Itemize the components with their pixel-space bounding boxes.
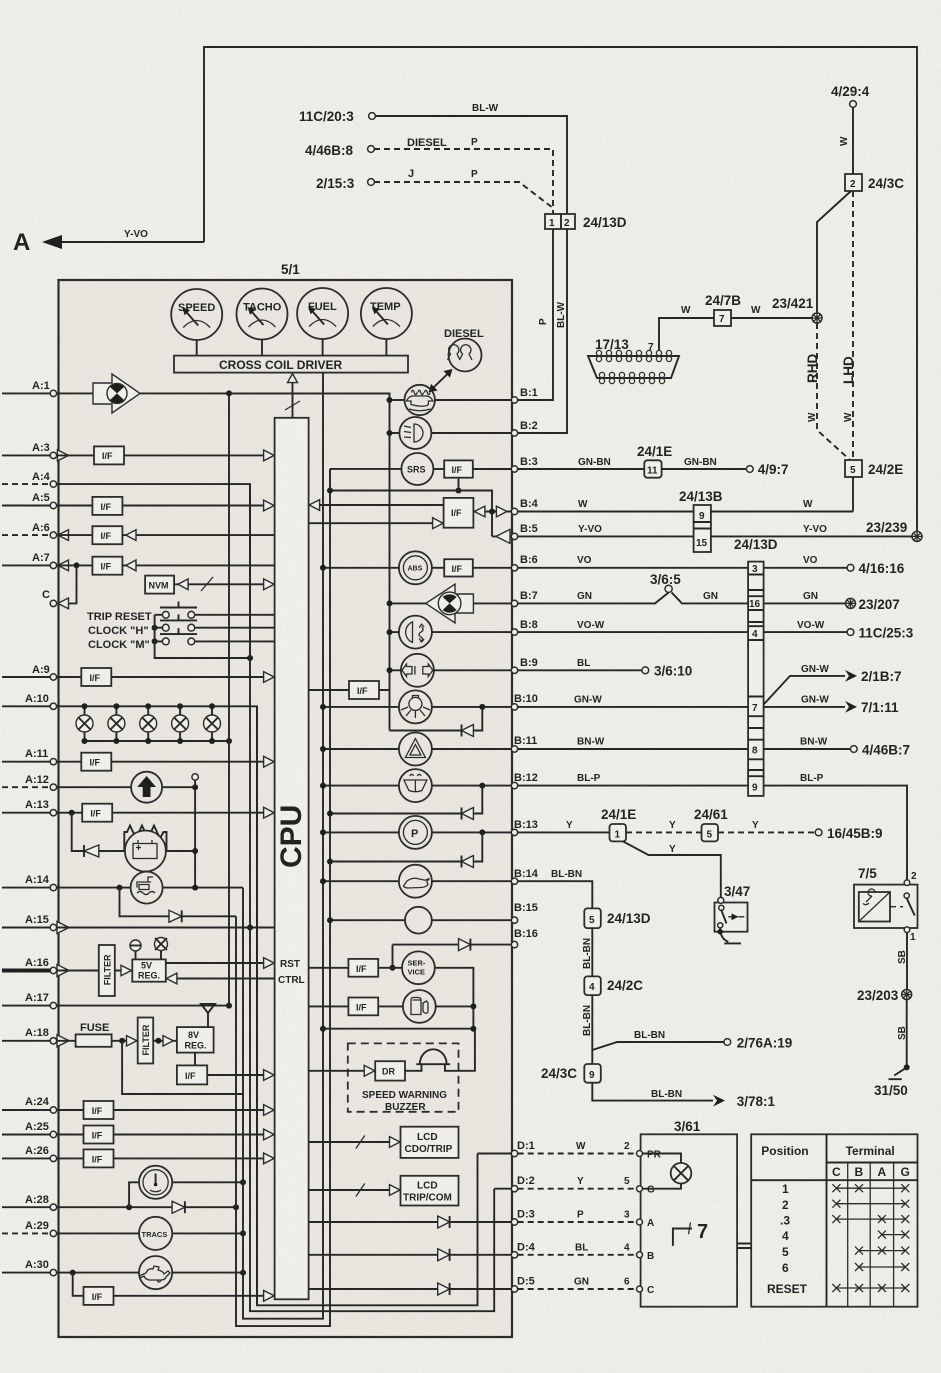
wire W from 24/7B to 23/421 bbox=[731, 305, 812, 318]
terminal 4/46B:7 bbox=[850, 743, 910, 758]
wire B:10 row bbox=[320, 704, 511, 710]
symbol stalk switch 3/61 bbox=[673, 1221, 708, 1246]
node junction A:28 bbox=[126, 1204, 132, 1210]
bus vertical x243 wrap bbox=[243, 373, 323, 1319]
pin A:1 bbox=[2, 380, 57, 397]
interface I/F A:25 bbox=[84, 1126, 114, 1144]
connector 24/3C pin 9 bbox=[541, 1064, 601, 1083]
wire filter to 5V reg bbox=[115, 965, 133, 975]
indicator low beam B:2 bbox=[399, 417, 431, 449]
interface I/F mid bus bbox=[349, 681, 379, 699]
node junction A:14 mid bbox=[192, 885, 198, 891]
pin B:9 bbox=[511, 657, 537, 674]
buzzer box dashed speed warning bbox=[348, 1043, 459, 1113]
wire A:9 row bbox=[57, 676, 275, 678]
interface I/F B:4 bbox=[444, 498, 474, 528]
wire B:13 diode branch bbox=[330, 832, 482, 861]
splice 23/239 bbox=[866, 520, 922, 542]
pin A:14 bbox=[2, 874, 57, 891]
diode D:3 bbox=[438, 1216, 450, 1228]
wire W from 4/29:4 to 24/3C bbox=[839, 107, 853, 174]
terminal 2/15:3 bbox=[316, 176, 374, 191]
arrow double-headed DIESEL to B:1 lamp bbox=[429, 369, 453, 393]
splice 23/207 bbox=[845, 597, 900, 612]
indicator fuel pump bbox=[403, 990, 436, 1023]
wire VO B:6 row bbox=[518, 555, 847, 568]
interface I/F A:13 bbox=[82, 804, 112, 822]
connector 24/2C pin 4 bbox=[584, 976, 643, 995]
symbol clock bbox=[139, 1166, 172, 1199]
wire A:18 branch down bbox=[122, 1041, 243, 1094]
wire D:3 internal bbox=[309, 1221, 512, 1223]
diode A:13 branch bbox=[84, 845, 99, 857]
wire A:26 row bbox=[57, 1157, 275, 1159]
symbol ignition arrow A:1 bbox=[93, 374, 140, 413]
diode B:12 branch bbox=[327, 808, 473, 820]
pin D:1 bbox=[511, 1140, 534, 1157]
node junction A:13 branch bbox=[69, 810, 75, 816]
diode A:28 bbox=[172, 1201, 185, 1213]
wire SB 7/5 to 23/203 bbox=[897, 933, 908, 991]
table row 2 contacts bbox=[832, 1200, 909, 1208]
wire Y branch to 3/47 bbox=[623, 841, 721, 897]
arrow into CPU A:26 bbox=[264, 1153, 275, 1164]
indicator parking brake B:13 bbox=[399, 816, 432, 849]
pin A:25 bbox=[2, 1121, 57, 1138]
wire SB 23/203 to ground bbox=[897, 1000, 908, 1068]
pin B:6 bbox=[511, 554, 537, 571]
wire GN D:5 to 3/61 bbox=[518, 1277, 636, 1290]
wire Y B:13 to 24/1E bbox=[518, 820, 610, 832]
wire B:8 row bbox=[387, 629, 512, 635]
wire BN-W B:11 row bbox=[518, 737, 851, 750]
terminal 3/6:10 bbox=[642, 664, 692, 679]
connector 24/13B pins 9 15 bbox=[679, 489, 723, 552]
wire B:2 row bbox=[387, 430, 512, 436]
wire A:13 row bbox=[57, 812, 275, 814]
gauge TACHO bbox=[237, 289, 288, 356]
switch CLOCK M bbox=[88, 628, 275, 651]
diode B:16 bbox=[459, 939, 471, 951]
wire A:1 row to bus bbox=[57, 392, 390, 394]
wire I/F A:18 to CPU bbox=[207, 1070, 274, 1081]
pin A:10 bbox=[2, 693, 57, 710]
wire 8V reg to I/F bbox=[194, 1053, 196, 1066]
arrow into CPU A:9 bbox=[264, 672, 275, 683]
pin A:3 bbox=[2, 442, 69, 461]
wire A:28 row bbox=[57, 1206, 236, 1208]
connector 24/13D pin 5 bbox=[584, 908, 650, 928]
antenna symbol 8V reg bbox=[201, 1004, 215, 1027]
indicator door ajar B:14 bbox=[399, 865, 432, 898]
pin D:5 bbox=[511, 1276, 534, 1293]
wire BL-P B:12 row bbox=[518, 773, 907, 883]
bus vertical x229 bbox=[228, 393, 230, 1005]
connector 24/3C pin 2 bbox=[845, 174, 904, 191]
connector 24/13D pins 1 2 bbox=[545, 214, 627, 230]
switch TRIP RESET bbox=[87, 602, 275, 624]
pin B:1 bbox=[511, 387, 537, 403]
wire P from 24/13D:1 down to B:1 bbox=[517, 229, 553, 400]
connector 24/2E pin 5 bbox=[845, 460, 903, 477]
pin A:6 bbox=[2, 522, 69, 541]
pin A:12 bbox=[2, 774, 57, 790]
wire D:5 internal bbox=[309, 1288, 512, 1290]
symbol lamp crossed bbox=[155, 938, 168, 960]
wire P J dashed from 2/15:3 joining 24/13D bbox=[374, 168, 553, 208]
wire Y dashed 24/61 to 16/45B:9 bbox=[718, 820, 815, 832]
wire W D:1 to 3/61 bbox=[518, 1141, 636, 1154]
wire A:7 row bbox=[57, 564, 275, 566]
gauge SPEED bbox=[171, 289, 222, 356]
wire fuse to filter bbox=[112, 1036, 138, 1046]
connector 24/1E pin 1 bbox=[601, 807, 636, 841]
wire GN B:7 row with 3/6:5 tap bbox=[518, 591, 846, 603]
wire B:13 row bbox=[320, 829, 511, 835]
indicator SERVICE bbox=[402, 951, 435, 984]
wire RST 5V reg to CPU bbox=[166, 958, 300, 970]
table row 1 contacts bbox=[832, 1184, 909, 1192]
pin A:7 bbox=[2, 552, 69, 571]
wire B:10 diode branch bbox=[390, 707, 483, 731]
wire A:11 row bbox=[57, 761, 275, 763]
pin A:16 bbox=[2, 957, 69, 977]
wire A:25 row bbox=[57, 1134, 275, 1136]
module 3/61 trip computer bbox=[637, 1119, 738, 1307]
buzzer dome symbol bbox=[405, 1029, 475, 1071]
wire A:30 row bbox=[57, 1272, 243, 1274]
wire trip switch common bus bbox=[155, 615, 253, 661]
pin A:13 bbox=[2, 799, 57, 816]
pin B:11 bbox=[511, 735, 537, 752]
wire NVM to CPU bbox=[174, 577, 275, 591]
terminal 11C/25:3 bbox=[847, 626, 914, 641]
wire B:12 diode branch bbox=[330, 786, 482, 814]
wire VO-W B:8 row bbox=[518, 620, 847, 632]
interface I/F A:24 bbox=[84, 1101, 114, 1119]
splice 23/203 bbox=[857, 988, 912, 1003]
pin A:18 bbox=[2, 1027, 69, 1047]
wire Y dashed 24/1E to 24/61 bbox=[626, 820, 702, 832]
interface I/F A:9 bbox=[81, 668, 111, 686]
wire I/F B:3 bottom lead bbox=[456, 478, 462, 494]
wire GN-W B:10 row bbox=[518, 695, 857, 713]
terminal 11C/20:3 bbox=[299, 109, 375, 124]
indicator ABS bbox=[399, 551, 432, 584]
pin B:15 bbox=[511, 902, 538, 923]
pin A:24 bbox=[2, 1096, 57, 1113]
indicator spare B:15 bbox=[405, 907, 432, 934]
arrow into CPU A:5 bbox=[264, 500, 275, 511]
wire Y D:2 to 3/61 bbox=[518, 1176, 636, 1189]
pin B:16 bbox=[511, 928, 538, 948]
wire CPU to LCD TRIP bbox=[309, 1184, 401, 1197]
terminal 4/16:16 bbox=[847, 561, 905, 576]
wire A:6 row bbox=[57, 534, 275, 536]
wire A:10 row to bus bbox=[57, 706, 257, 1305]
wire A:16 row to filter bbox=[57, 970, 99, 972]
wire B:14 row bbox=[320, 878, 511, 884]
interface I/F A:3 bbox=[94, 446, 124, 464]
wire SERVICE row bbox=[309, 968, 474, 1029]
interface I/F A:26 bbox=[84, 1149, 114, 1167]
splice 23/421 bbox=[772, 296, 822, 323]
wire A:14 branch diode row bbox=[120, 888, 237, 917]
terminal 4/9:7 bbox=[746, 462, 788, 477]
terminal 4/46B:8 bbox=[305, 143, 374, 158]
pin B:5 bbox=[511, 523, 537, 540]
bus vertical x250 wrap to D:2 bbox=[250, 484, 494, 1311]
wire BL D:4 to 3/61 bbox=[518, 1242, 636, 1255]
wire B:9 row bbox=[387, 667, 512, 673]
wire BL-BN B:14 chain bbox=[518, 869, 593, 908]
connector strip 24/13D right bbox=[734, 537, 778, 796]
wire A:17 row bbox=[57, 1003, 232, 1009]
table row 3 contacts bbox=[832, 1215, 909, 1223]
cross coil driver box bbox=[174, 356, 408, 373]
interface I/F fuel bbox=[348, 998, 378, 1016]
arrow into CPU A:24 bbox=[264, 1105, 275, 1116]
filter A:18 bbox=[138, 1018, 154, 1064]
pin A:15 bbox=[2, 914, 69, 934]
diode A:14 branch bbox=[169, 910, 182, 922]
wire B:7 row bbox=[387, 600, 512, 606]
indicator SRS bbox=[401, 453, 433, 485]
symbol oil pressure bbox=[139, 1256, 172, 1289]
wire GN-BN to 4/9:7 bbox=[662, 457, 747, 469]
arrow into CPU A:3 bbox=[264, 450, 275, 461]
wire A:28 branch clock row bbox=[129, 1182, 243, 1207]
regulator 5V REG bbox=[132, 959, 166, 981]
fuse A:18 bbox=[57, 1022, 112, 1047]
wire LHD dashed from 24/3C down to 24/2E bbox=[841, 191, 856, 460]
instrument cluster 5/1 box bbox=[59, 262, 513, 1337]
node A off-page arrow bbox=[13, 229, 204, 256]
diode B:10 branch bbox=[462, 725, 474, 737]
arrow into CPU A:11 bbox=[264, 756, 275, 767]
pin A:29 bbox=[2, 1220, 57, 1237]
lamp group panel illumination bbox=[76, 703, 232, 744]
indicator turn signals B:9 bbox=[401, 654, 434, 687]
node junction A:30 bus bbox=[240, 1270, 246, 1276]
wire B:16 row bbox=[390, 945, 512, 971]
pin B:10 bbox=[511, 693, 538, 710]
wire Y-VO B:5 to 23/239 bbox=[518, 524, 912, 536]
pin B:13 bbox=[511, 819, 538, 836]
node junction clock bus bbox=[240, 1179, 246, 1185]
wire A:29 row bbox=[57, 1232, 243, 1234]
interface I/F SERVICE bbox=[348, 959, 378, 977]
interface I/F A:11 bbox=[81, 753, 111, 771]
wire bus y490 bbox=[327, 488, 492, 537]
pin A:4 bbox=[2, 471, 57, 487]
wire fuel row bbox=[309, 1003, 477, 1009]
bus vertical x257 wrap to D:1 bbox=[257, 706, 478, 1305]
wire BL-BN 24/13D to 24/2C bbox=[582, 928, 593, 976]
wire SRS row bbox=[330, 468, 511, 470]
wire W from 17/13 to 24/7B bbox=[659, 305, 714, 356]
indicator DIESEL glow symbol bbox=[444, 328, 484, 372]
pin B:7 bbox=[511, 590, 537, 607]
node junction A:14 left bbox=[117, 885, 123, 891]
wire A:12 row bbox=[57, 786, 196, 788]
indicator bulb B:10 bbox=[399, 690, 432, 723]
symbol shift-up indicator A:12 bbox=[131, 772, 162, 803]
wire B:11 row bbox=[320, 746, 511, 752]
gauge FUEL bbox=[297, 288, 348, 356]
table row 4 contacts bbox=[878, 1231, 909, 1239]
wire CCD to CPU with bus slash bbox=[285, 374, 300, 418]
wire A:14 row bbox=[57, 887, 243, 889]
wire A:1 extension to icon bus bbox=[229, 393, 390, 730]
symbol voltage stabilizer battery bbox=[125, 831, 166, 872]
wire BL-BN branch to 2/76A:19 bbox=[592, 1030, 724, 1050]
wire A:5 row bbox=[57, 505, 275, 507]
wire BL-BN 24/2C to 24/3C with branch bbox=[582, 995, 593, 1064]
pin D:2 bbox=[511, 1175, 534, 1192]
regulator 8V REG bbox=[177, 1027, 214, 1053]
link 3/61 to table bbox=[737, 1244, 751, 1249]
node junction stabilizer out bbox=[192, 848, 198, 854]
interface I/F A:7 bbox=[92, 557, 136, 575]
switch CLOCK H bbox=[88, 614, 275, 637]
pin A:11 bbox=[2, 748, 57, 765]
wire BL-W from 24/13D:2 down to B:2 bbox=[517, 229, 567, 433]
node junction A:1 bus bbox=[226, 390, 232, 396]
wire bus y1028 bbox=[320, 1026, 476, 1032]
wire CPU to I/F B:4 upper bbox=[309, 500, 444, 511]
pin D:4 bbox=[511, 1241, 535, 1258]
pin B:4 bbox=[511, 498, 538, 515]
wire CTRL CPU to 5V reg bbox=[166, 973, 305, 986]
node junction TRACS bus bbox=[240, 1230, 246, 1236]
table position terminal bbox=[751, 1134, 917, 1306]
terminal 3/6:5 bbox=[650, 572, 681, 592]
interface I/F A:5 bbox=[92, 497, 122, 515]
connector 17/13 bbox=[588, 337, 679, 384]
wire B:6 row bbox=[320, 565, 511, 571]
wire P D:3 to 3/61 bbox=[518, 1210, 636, 1223]
indicator glow plug B:1 bbox=[405, 385, 435, 415]
wire filter to 8V reg bbox=[153, 1036, 177, 1046]
wire D:4 internal bbox=[309, 1254, 512, 1256]
table row 6 contacts bbox=[855, 1263, 909, 1271]
pin B:12 bbox=[511, 772, 538, 789]
filter A:16 bbox=[99, 945, 115, 996]
pin A:9 bbox=[2, 664, 57, 680]
table row 5 contacts bbox=[855, 1247, 909, 1255]
wire A:24 row bbox=[57, 1109, 275, 1111]
wire A:3 row bbox=[57, 454, 275, 456]
wire W from 24/2E down to B:4 row bbox=[852, 477, 854, 512]
LCD TRIP/COM box bbox=[401, 1176, 459, 1206]
wire W B:4 to 24/13B bbox=[518, 499, 694, 512]
CPU box bbox=[275, 418, 309, 1300]
terminal 16/45B:9 bbox=[815, 826, 882, 841]
wire A:4 row to bus bbox=[57, 484, 250, 658]
terminal 4/29:4 bbox=[831, 84, 870, 107]
indicator bulb failure B:8 bbox=[399, 616, 432, 649]
connector 24/1E pin 11 bbox=[637, 444, 672, 478]
connector 24/7B pin 7 bbox=[705, 293, 741, 326]
memory NVM bbox=[145, 576, 174, 594]
pin A:28 bbox=[2, 1194, 57, 1210]
wire BL B:9 row bbox=[518, 658, 642, 670]
wire B:1 row bbox=[387, 397, 512, 403]
wire D:1 internal bbox=[478, 1153, 512, 1155]
pin B:14 bbox=[511, 868, 538, 884]
relay 7/5 bbox=[854, 866, 918, 943]
wire P DIESEL dashed from 4/46B:8 to 24/13D bbox=[374, 137, 553, 214]
terminal 2/76A:19 bbox=[724, 1036, 792, 1051]
pin A:26 bbox=[2, 1145, 57, 1162]
wire I/F B:4 to pin bbox=[473, 506, 511, 517]
indicator washer fluid B:12 bbox=[399, 769, 432, 802]
node junction A:28 bus bbox=[233, 1204, 239, 1210]
pin A:30 bbox=[2, 1259, 57, 1276]
wire Y-VO outer loop top border bbox=[204, 47, 917, 537]
wire GN-BN B:3 to 24/1E bbox=[518, 457, 645, 469]
wire CPU to LCD CDO bbox=[309, 1136, 401, 1149]
interface I/F B:6 bbox=[444, 559, 473, 576]
interface I/F A:18 bbox=[177, 1065, 207, 1084]
connector 24/61 pin 5 bbox=[694, 807, 728, 841]
pin A:5 bbox=[2, 492, 57, 509]
wire W 24/13B to 24/2E bbox=[711, 499, 853, 512]
wire GN-W branch to 2/1B:7 bbox=[764, 664, 857, 705]
symbol sense lead circle bbox=[130, 940, 141, 959]
wire CPU to I/F B:4 lower bbox=[309, 518, 444, 529]
wire B:15 row bbox=[327, 917, 511, 923]
diode D:5 bbox=[438, 1283, 450, 1295]
driver DR box bbox=[375, 1061, 405, 1080]
wire D:2 internal bbox=[494, 1188, 511, 1190]
node junction A:30 bbox=[70, 1270, 76, 1276]
LCD CDO/TRIP box bbox=[401, 1127, 459, 1158]
pin B:8 bbox=[511, 619, 537, 635]
wire RHD solid diagonal from 24/3C down to 23/421 bbox=[817, 191, 851, 318]
symbol ignition arrow B:7 bbox=[426, 584, 474, 623]
wire BL-BN 24/3C to 3/78:1 bbox=[592, 1083, 725, 1107]
pin D:3 bbox=[511, 1209, 534, 1226]
arrow into CPU A:13 bbox=[264, 807, 275, 818]
wire BL-W from 11C/20:3 to 24/13D bbox=[375, 103, 567, 214]
interface I/F A:6 bbox=[92, 526, 136, 544]
wire B:5 stub bbox=[492, 529, 511, 543]
node junction A:12 with terminal stub bbox=[192, 774, 198, 888]
gauge TEMP bbox=[361, 288, 412, 356]
bus vertical x236 wrap bbox=[236, 469, 330, 1326]
pin B:3 bbox=[511, 456, 537, 472]
wire A:13 branch row bbox=[72, 813, 195, 851]
diode B:13 branch bbox=[327, 856, 473, 868]
wire RHD dashed from 23/421 to 24/2E bbox=[805, 323, 850, 460]
wire I/F A:30 to CPU bbox=[114, 1290, 275, 1301]
pin C bbox=[42, 589, 69, 609]
wire A:7 branch to C bbox=[69, 565, 77, 603]
interface I/F B:3 bbox=[444, 460, 473, 477]
pin B:2 bbox=[511, 420, 537, 436]
pin A:17 bbox=[2, 992, 57, 1009]
lamp 3/61 illumination bbox=[643, 1154, 692, 1189]
wire A:30 branch to I/F bbox=[73, 1273, 84, 1296]
arrow into CPU A:25 bbox=[264, 1129, 275, 1140]
table row RESET contacts bbox=[832, 1284, 909, 1292]
wire A:15 row bbox=[57, 927, 275, 929]
switch 3/47 bbox=[715, 884, 751, 943]
wire I/F mid bus leads bbox=[309, 689, 390, 691]
diode D:4 bbox=[438, 1249, 450, 1261]
